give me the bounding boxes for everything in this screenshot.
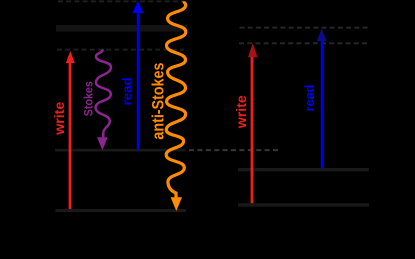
svg-text:write: write <box>51 102 67 136</box>
svg-text:read: read <box>120 77 135 105</box>
svg-text:write: write <box>233 95 249 129</box>
write arrow (right panel) <box>251 56 254 203</box>
lower ground level, right panel <box>238 203 369 206</box>
dashed spin-level extension between panels <box>189 149 278 151</box>
lower ground level, left panel <box>56 209 187 212</box>
svg-text:read: read <box>302 84 317 111</box>
read arrow (right panel) <box>321 40 324 168</box>
upper ground level, right panel <box>238 168 369 171</box>
svg-text:anti-Stokes: anti-Stokes <box>149 63 168 140</box>
write arrow (left panel) <box>69 62 72 210</box>
read arrow (left panel) <box>137 12 140 151</box>
Stokes photon wavy arrow <box>96 49 111 137</box>
excited state band, left panel <box>56 25 187 32</box>
virtual level (lower dashed), right panel <box>239 42 369 44</box>
anti-Stokes photon wavy arrow <box>166 1 186 198</box>
svg-text:Stokes: Stokes <box>82 81 96 116</box>
virtual level (lower dashed), left panel <box>57 49 184 51</box>
upper ground (spin) level, left panel <box>55 149 186 152</box>
virtual level (upper dashed), left panel <box>58 0 184 2</box>
virtual level (upper dashed), right panel <box>240 27 369 29</box>
